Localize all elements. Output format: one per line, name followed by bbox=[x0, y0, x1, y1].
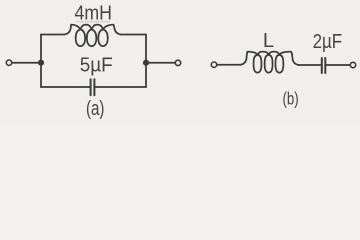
wire right lead (a) bbox=[146, 62, 175, 64]
svg-text:5µF: 5µF bbox=[80, 54, 113, 76]
wire top edge left (a) bbox=[41, 34, 65, 36]
wire left vertical (a) bbox=[40, 35, 42, 88]
svg-text:(a): (a) bbox=[86, 98, 105, 120]
node junction left (a) bbox=[38, 60, 44, 66]
svg-text:4mH: 4mH bbox=[74, 2, 112, 24]
inductor L1 4mH bbox=[65, 25, 121, 46]
wire left lead (a) bbox=[12, 62, 41, 64]
wire bottom edge right (a) bbox=[95, 86, 146, 88]
wire left lead (b) bbox=[217, 64, 241, 66]
capacitor C1 5uF plate left bbox=[90, 79, 92, 95]
wire middle (b) bbox=[299, 64, 322, 66]
svg-text:L: L bbox=[263, 30, 274, 52]
capacitor C2 2uF plate right bbox=[324, 58, 326, 73]
svg-text:(b): (b) bbox=[283, 89, 299, 109]
capacitor C2 2uF plate left bbox=[321, 58, 323, 73]
wire bottom edge left (a) bbox=[41, 86, 90, 88]
inductor L bbox=[241, 52, 299, 73]
wire right lead (b) bbox=[326, 64, 350, 66]
svg-text:2µF: 2µF bbox=[313, 31, 343, 53]
terminal right (a) bbox=[175, 60, 180, 65]
terminal left (b) bbox=[211, 62, 216, 67]
capacitor C1 5uF plate right bbox=[93, 79, 95, 95]
wire right vertical (a) bbox=[145, 35, 147, 88]
terminal left (a) bbox=[6, 60, 11, 65]
wire top edge right (a) bbox=[121, 34, 147, 36]
terminal right (b) bbox=[350, 62, 355, 67]
node junction right (a) bbox=[143, 60, 149, 66]
